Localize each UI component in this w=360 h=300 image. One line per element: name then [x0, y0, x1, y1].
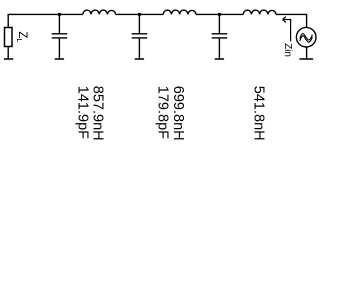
- ground: [299, 58, 313, 60]
- inductor L1: [83, 10, 116, 14]
- resistor Z_L: [5, 28, 13, 47]
- inductor L3: [243, 10, 276, 14]
- inductor L2: [163, 10, 196, 14]
- capacitor C1: [58, 14, 60, 33]
- ac source V1: [296, 27, 316, 47]
- ground: [4, 58, 13, 60]
- svg-text:541.8nH: 541.8nH: [250, 86, 266, 141]
- capacitor C2: [138, 14, 140, 33]
- svg-text:ZL: ZL: [15, 31, 28, 42]
- wire: [196, 13, 243, 15]
- Zin arrow: [283, 17, 291, 42]
- wire: [116, 13, 164, 15]
- ground: [55, 58, 64, 60]
- svg-text:857.9nH: 857.9nH: [89, 86, 105, 141]
- ground: [215, 58, 224, 60]
- node dot N2: [138, 13, 141, 16]
- node dot N3: [218, 13, 221, 16]
- svg-text:699.8nH: 699.8nH: [170, 86, 186, 141]
- svg-text:141.9pF: 141.9pF: [75, 86, 91, 139]
- ground: [135, 58, 144, 60]
- svg-text:Zin: Zin: [282, 43, 293, 57]
- wire with left corner down to load: [8, 14, 83, 27]
- svg-text:179.8pF: 179.8pF: [155, 86, 171, 139]
- wire with right corner down to source: [276, 14, 307, 27]
- capacitor C3: [218, 14, 220, 33]
- node dot N1: [58, 13, 61, 16]
